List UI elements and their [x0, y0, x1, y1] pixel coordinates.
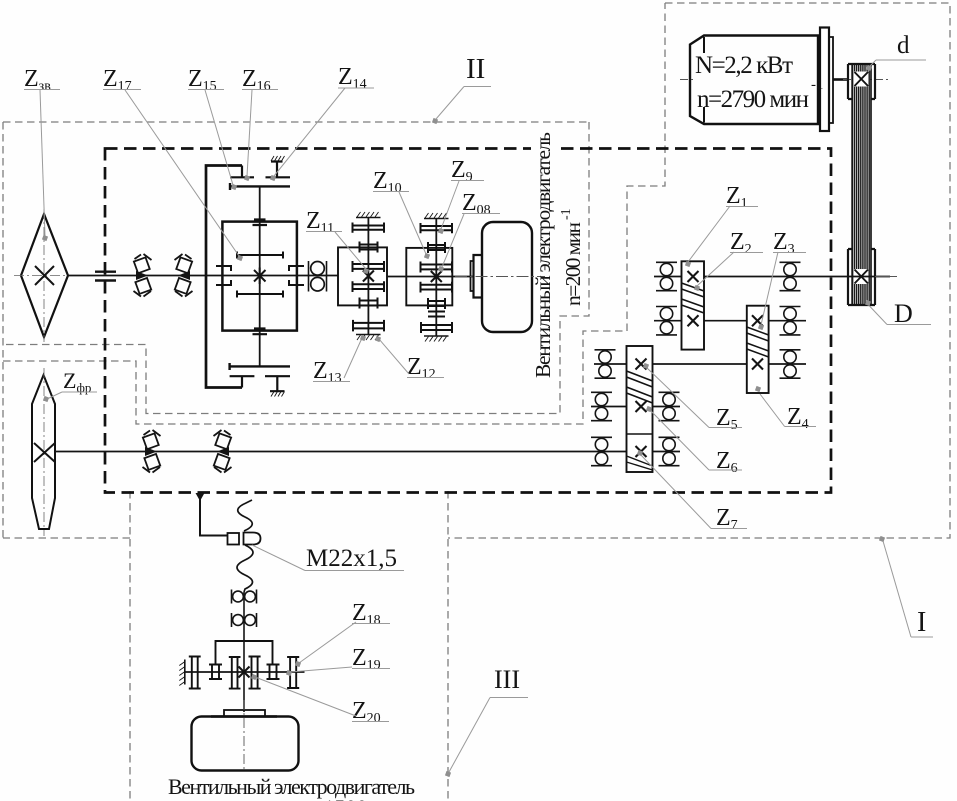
universal joint 1 upper shaft — [134, 254, 152, 297]
grounded stator top hatch — [271, 156, 285, 161]
block A bottom fixed hatch — [356, 334, 381, 336]
svg-text:Вентильный электродвигатель: Вентильный электродвигатель — [531, 132, 555, 378]
gear block 2 X lower — [752, 359, 763, 370]
top gear line — [230, 183, 290, 190]
region I dashed inner stepped boundary — [3, 3, 665, 424]
bearing shaft1 left — [656, 262, 677, 290]
gear block 3 shift hatch — [627, 371, 653, 403]
bearing shaft4 right — [659, 392, 680, 420]
bottom gear shaft — [185, 671, 305, 673]
block B bottom fixed hatch — [424, 335, 449, 337]
region II dashed box right and bottom stepped edge — [3, 122, 589, 414]
clutch half brackets left — [216, 266, 231, 285]
region III dashed box right edge — [447, 491, 449, 801]
motor M1 flange hub — [829, 37, 833, 123]
gear v2 short — [209, 665, 222, 680]
gear v6 tall — [287, 657, 299, 688]
shaft 2 — [654, 320, 806, 322]
block A gear wide top — [353, 223, 385, 233]
motor M1 shaft to pulley d — [833, 78, 849, 81]
bearing shaft1 right — [780, 262, 801, 290]
universal joint 2 arrow — [178, 271, 190, 280]
svg-text:-1: -1 — [811, 77, 824, 93]
central vertical shaft — [259, 186, 261, 366]
universal joint 4 lower shaft — [214, 430, 232, 473]
bearing shaft2 right — [780, 307, 801, 335]
link line to screw nut — [200, 496, 227, 536]
universal joint 3 lower shaft — [143, 430, 161, 473]
svg-text:I: I — [917, 607, 926, 638]
shaft 3 — [594, 363, 806, 365]
gear block 1 shift hatch — [682, 283, 705, 313]
svg-text:D: D — [894, 299, 913, 328]
universal joint 3 arrow — [145, 447, 157, 456]
housing bottom inner bracket — [230, 376, 255, 387]
svg-text:III: III — [494, 665, 520, 694]
block A housing box — [338, 247, 387, 305]
pulley d rim — [848, 64, 875, 99]
motor M1 body — [690, 36, 818, 125]
motor M2 flange — [474, 255, 483, 298]
thick dashed gearbox boundary box — [105, 149, 831, 493]
motor M2 flange tab — [471, 261, 474, 291]
block A gear small upper — [360, 242, 378, 253]
gear v5 short — [267, 665, 280, 680]
block A vertical shaft — [367, 218, 369, 336]
gear ticks on shaft top — [253, 220, 268, 226]
block A gear small lower — [360, 298, 378, 309]
bearing vertical shaft lower — [232, 613, 257, 627]
block B vertical shaft — [435, 219, 437, 337]
bottom gear line — [230, 363, 290, 370]
inner gear line upper — [237, 252, 283, 259]
svg-text:n=200 мин: n=200 мин — [561, 222, 585, 306]
svg-text:N=2,2 кВт: N=2,2 кВт — [695, 52, 793, 79]
blade centerline — [43, 368, 45, 536]
fixed wall left hatched — [184, 660, 186, 685]
block B gear wide bottom — [421, 322, 452, 333]
grounded stator bottom — [265, 376, 290, 391]
grounded stator top Z14 — [266, 162, 291, 178]
gear ticks on shaft bottom — [253, 329, 268, 335]
gear block 1 housing — [682, 261, 705, 349]
milling cutter blade Zfr — [32, 375, 55, 529]
vertical shaft to motor3 — [243, 592, 245, 712]
clutch half brackets right — [289, 266, 304, 285]
diamond centerline horizontal — [14, 275, 77, 277]
bearing pair right of gearbox — [309, 261, 327, 292]
diamond X mark — [35, 266, 54, 285]
gear block 3 lower hatch — [627, 456, 653, 470]
universal joint 4 arrow — [217, 447, 229, 456]
diamond centerline vertical — [43, 209, 45, 342]
universal joint 1 arrow — [136, 271, 148, 280]
motor M1 body inner ticks — [703, 37, 705, 123]
lower long shaft — [55, 451, 680, 453]
gear block 2 housing — [747, 306, 769, 393]
pulley D rim — [848, 249, 875, 305]
gear block 2 X upper — [752, 315, 763, 326]
housing top inner bracket — [230, 166, 254, 178]
motor M2 centerline — [455, 276, 545, 278]
svg-text:d: d — [897, 32, 910, 59]
block B top fixed hatch — [424, 218, 449, 220]
block A gear big lower — [353, 281, 385, 292]
gear v4 tall — [249, 657, 261, 689]
coupling on upper shaft — [95, 272, 116, 281]
bearing shaft4 left — [591, 392, 612, 420]
block A top fixed hatch — [356, 217, 381, 219]
region II dashed box top edge — [3, 121, 589, 123]
motor M1 centerline — [680, 79, 891, 81]
bearing vertical shaft upper — [232, 590, 257, 604]
upper main shaft — [68, 275, 206, 277]
motor M3 centerline — [243, 700, 245, 772]
region II dashed box left edge — [2, 122, 4, 538]
main shaft through gearbox — [206, 275, 338, 277]
motor M2 body — [482, 222, 532, 332]
gear block 1 X lower — [688, 315, 699, 326]
gear block 3 divider — [627, 433, 653, 435]
housing C bracket — [206, 166, 242, 388]
block B gear big lower — [421, 282, 453, 293]
gear block 3 X top — [636, 359, 647, 370]
diamond star wheel Zzv — [21, 214, 68, 337]
bearing shaft2 left — [656, 307, 677, 335]
motor M3 body — [192, 717, 299, 771]
belt band hatching — [852, 64, 871, 305]
shift fork bracket — [216, 641, 273, 664]
gear X mark — [239, 667, 250, 678]
screw zigzag upper — [238, 500, 253, 531]
block A gear wide bottom — [353, 320, 384, 332]
gear v1 tall — [189, 657, 201, 689]
region I dashed outer boundary top right bottom — [3, 3, 950, 538]
belt band outline — [852, 64, 871, 305]
bearing shaft3 left — [595, 350, 616, 378]
vertical text ventilny electrodvigatel — [531, 141, 559, 156]
central gear block box — [222, 222, 297, 331]
gear block 3 X bottom — [636, 446, 647, 457]
block B gear big upper — [421, 262, 453, 273]
block A X mark on shaft — [363, 271, 374, 282]
block B gear small upper — [428, 242, 445, 253]
block B housing box — [406, 248, 452, 306]
universal joint 2 upper shaft — [175, 254, 193, 297]
block B gear small lower — [428, 298, 445, 309]
region III dashed box left edge — [129, 491, 131, 801]
motor M1 flange plate — [820, 28, 829, 132]
gear block 1 X upper — [688, 271, 699, 282]
screw zigzag lower — [237, 545, 253, 592]
shaft 1 centerline stub — [875, 276, 897, 278]
bearing shaft5 right — [659, 437, 680, 465]
screw nut left block — [228, 533, 240, 545]
svg-text:М22х1,5: М22х1,5 — [306, 545, 397, 572]
blade X mark — [34, 443, 55, 462]
screw nut right block — [244, 533, 261, 545]
svg-text:II: II — [466, 53, 485, 85]
inner gear line lower — [237, 291, 283, 298]
gear v3 tall — [229, 657, 241, 689]
gear block 3 X middle — [636, 401, 647, 412]
shaft 1 — [654, 276, 890, 278]
block B gear mid lower — [428, 312, 445, 317]
block B gear wide top — [421, 223, 453, 233]
pulley D hub with X — [854, 269, 869, 284]
svg-text:n=2790 мин: n=2790 мин — [697, 86, 809, 113]
grounded stator bottom hatch — [271, 392, 285, 397]
gear block 2 shift hatch — [747, 327, 769, 357]
pulley d hub with X — [854, 72, 869, 87]
shaft between blocks and motor — [387, 276, 473, 278]
shaft 4 — [591, 406, 680, 408]
motor M3 top flange — [224, 710, 265, 717]
junction dot on thick dashed line — [196, 493, 205, 501]
bearing shaft5 left — [591, 437, 612, 465]
block B X mark on shaft — [431, 271, 442, 282]
svg-text:n=1500 мин: n=1500 мин — [300, 795, 411, 801]
block A gear big upper — [353, 261, 385, 272]
svg-text:-1: -1 — [559, 208, 574, 220]
central asterisk mark — [254, 268, 266, 285]
gear block 3 housing — [627, 346, 653, 472]
motor M3 flange line — [211, 715, 277, 717]
bearing shaft3 right — [780, 350, 801, 378]
